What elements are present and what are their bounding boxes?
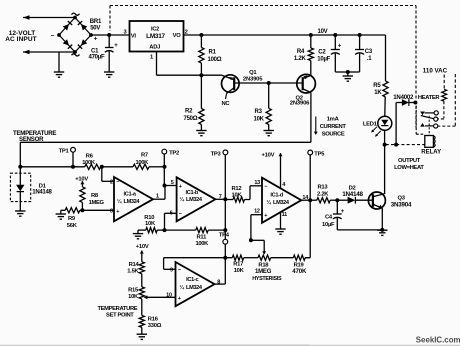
- svg-text:470K: 470K: [292, 268, 307, 275]
- svg-text:ADJ: ADJ: [149, 44, 160, 50]
- svg-text:R11: R11: [197, 234, 208, 240]
- svg-text:1mA: 1mA: [327, 117, 340, 123]
- svg-text:C2: C2: [318, 49, 326, 55]
- svg-text:10µF: 10µF: [317, 57, 330, 63]
- svg-text:AC INPUT: AC INPUT: [5, 36, 37, 43]
- svg-text:1MEG: 1MEG: [89, 200, 105, 206]
- svg-text:R6: R6: [86, 154, 94, 160]
- svg-text:10µF: 10µF: [322, 222, 335, 228]
- svg-text:R7: R7: [141, 153, 148, 159]
- svg-text:R18: R18: [258, 263, 269, 269]
- svg-text:11: 11: [282, 212, 288, 218]
- svg-text:D1: D1: [39, 183, 47, 189]
- svg-text:10K: 10K: [234, 268, 245, 274]
- svg-text:10K: 10K: [232, 192, 243, 198]
- svg-text:TEMPERATURE: TEMPERATURE: [97, 306, 137, 312]
- svg-text:LM324: LM324: [273, 200, 290, 206]
- svg-text:1N4148: 1N4148: [342, 191, 363, 198]
- svg-text:R13: R13: [318, 185, 329, 191]
- svg-text:50V: 50V: [90, 26, 100, 32]
- svg-text:+: +: [179, 184, 182, 190]
- svg-text:+: +: [116, 209, 119, 215]
- svg-text:C1: C1: [91, 48, 99, 54]
- svg-text:5: 5: [171, 180, 174, 186]
- svg-text:100K: 100K: [82, 160, 96, 166]
- svg-text:SeekIC.com: SeekIC.com: [416, 336, 460, 345]
- svg-text:LED1: LED1: [363, 122, 378, 128]
- svg-text:R12: R12: [232, 186, 242, 192]
- svg-text:TP2: TP2: [169, 150, 179, 156]
- svg-text:IC1-b: IC1-b: [186, 190, 199, 196]
- svg-text:OUTPUT: OUTPUT: [398, 158, 421, 164]
- svg-text:R8: R8: [91, 193, 99, 199]
- svg-text:750Ω: 750Ω: [184, 116, 198, 122]
- svg-text:SOURCE: SOURCE: [322, 132, 345, 138]
- svg-text:R9: R9: [68, 216, 76, 222]
- svg-text:+: +: [94, 35, 98, 42]
- svg-text:TP5: TP5: [314, 151, 325, 157]
- svg-text:+10V: +10V: [262, 152, 275, 158]
- svg-text:1.2K: 1.2K: [294, 56, 307, 62]
- svg-text:R14: R14: [129, 262, 140, 268]
- svg-text:+: +: [264, 213, 267, 219]
- svg-text:C3: C3: [365, 49, 373, 55]
- svg-text:470µF: 470µF: [89, 55, 105, 61]
- svg-text:2N3905: 2N3905: [243, 77, 263, 83]
- svg-text:IC2: IC2: [151, 27, 159, 33]
- svg-text:+10V: +10V: [136, 244, 149, 250]
- svg-text:13: 13: [254, 180, 260, 186]
- svg-text:VO: VO: [173, 33, 182, 39]
- svg-text:R2: R2: [185, 109, 193, 115]
- svg-text:10V: 10V: [318, 29, 328, 35]
- svg-text:R5: R5: [373, 83, 381, 89]
- svg-text:R3: R3: [255, 109, 263, 115]
- svg-text:BR1: BR1: [90, 19, 102, 25]
- svg-text:9: 9: [170, 268, 173, 274]
- svg-text:IC1-c: IC1-c: [186, 277, 198, 283]
- svg-text:SET POINT: SET POINT: [106, 313, 134, 319]
- svg-text:1N4002: 1N4002: [393, 94, 414, 101]
- svg-text:R10: R10: [144, 215, 154, 221]
- svg-text:R1: R1: [209, 50, 217, 56]
- svg-text:56K: 56K: [67, 223, 78, 229]
- svg-text:RELAY: RELAY: [421, 149, 441, 155]
- svg-text:10K: 10K: [128, 294, 139, 300]
- svg-text:LM324: LM324: [124, 199, 141, 205]
- svg-text:1K: 1K: [374, 90, 382, 96]
- svg-text:1MEG: 1MEG: [255, 269, 272, 275]
- svg-text:+: +: [178, 296, 181, 302]
- svg-text:2: 2: [110, 179, 113, 185]
- svg-text:CURRENT: CURRENT: [320, 124, 347, 130]
- svg-text:HEATER: HEATER: [418, 95, 440, 101]
- svg-text:100K: 100K: [196, 241, 210, 247]
- svg-text:−: −: [178, 268, 181, 274]
- svg-text:TP4: TP4: [219, 232, 230, 238]
- svg-text:110 VAC: 110 VAC: [423, 68, 448, 75]
- svg-text:R15: R15: [128, 288, 139, 294]
- svg-text:2.2K: 2.2K: [317, 191, 329, 197]
- svg-text:1.5K: 1.5K: [127, 269, 139, 275]
- svg-text:10K: 10K: [145, 221, 156, 227]
- svg-text:TP3: TP3: [211, 151, 222, 157]
- svg-text:VI: VI: [131, 33, 137, 39]
- svg-text:100Ω: 100Ω: [208, 57, 222, 63]
- svg-text:10K: 10K: [254, 116, 265, 122]
- svg-text:2N3906: 2N3906: [290, 101, 310, 107]
- svg-text:R17: R17: [233, 261, 243, 267]
- svg-text:R16: R16: [148, 317, 159, 323]
- svg-text:LM324: LM324: [186, 285, 203, 291]
- svg-text:C4: C4: [325, 214, 333, 220]
- svg-text:LM317: LM317: [146, 33, 165, 40]
- svg-text:1N4148: 1N4148: [32, 190, 52, 196]
- svg-text:TP1: TP1: [59, 148, 70, 154]
- svg-text:IC1-d: IC1-d: [270, 192, 283, 198]
- svg-text:IC1-a: IC1-a: [124, 191, 137, 197]
- svg-text:R4: R4: [297, 49, 305, 55]
- svg-text:LM324: LM324: [186, 197, 203, 203]
- svg-text:3: 3: [110, 208, 113, 214]
- svg-text:−: −: [179, 212, 182, 218]
- svg-text:12: 12: [254, 209, 260, 215]
- svg-text:3N3904: 3N3904: [391, 202, 412, 209]
- svg-text:−: −: [116, 180, 119, 186]
- svg-text:SENSOR: SENSOR: [19, 136, 44, 143]
- svg-text:−: −: [264, 184, 267, 190]
- svg-text:HYSTERISIS: HYSTERISIS: [252, 276, 282, 282]
- svg-text:100K: 100K: [136, 160, 150, 166]
- svg-text:Q3: Q3: [398, 196, 406, 202]
- svg-text:LOW=HEAT: LOW=HEAT: [394, 165, 424, 171]
- svg-text:330Ω: 330Ω: [148, 323, 162, 329]
- svg-text:Q1: Q1: [249, 70, 257, 76]
- svg-text:NC: NC: [222, 101, 231, 107]
- svg-text:−: −: [51, 32, 55, 39]
